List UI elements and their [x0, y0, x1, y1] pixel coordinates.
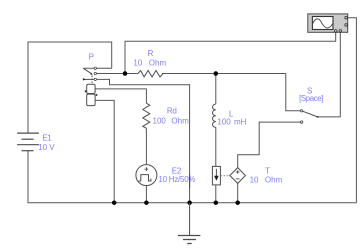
wire top-left loop: [28, 42, 112, 133]
junction node N2: [214, 71, 219, 76]
wire coil top to Rd: [95, 89, 146, 103]
lever P arrowhead: [90, 73, 92, 75]
wire P top contact to corner: [83, 67, 111, 69]
svg-text:R: R: [148, 49, 154, 58]
contact circle top: [94, 67, 96, 69]
junction rail 1: [112, 200, 117, 205]
svg-text:P: P: [89, 53, 94, 62]
resistor R: [138, 71, 163, 77]
wire R right lead: [162, 73, 286, 75]
row3 lever: [84, 78, 94, 80]
lever P: [83, 68, 91, 74]
junction rail 5: [235, 200, 240, 205]
svg-text:10 V: 10 V: [38, 143, 55, 152]
wire L top: [215, 74, 217, 105]
wire E2 to rail: [145, 186, 147, 203]
svg-text:mH: mH: [234, 118, 247, 127]
svg-text:Ohm: Ohm: [265, 175, 283, 184]
source E2: [136, 165, 157, 186]
svg-text:10: 10: [133, 58, 142, 67]
resistor Rd: [143, 103, 150, 128]
junction rail 2: [144, 200, 149, 205]
wire to switch S upper: [286, 74, 301, 111]
svg-text:E1: E1: [42, 134, 52, 143]
contact circle middle: [94, 72, 96, 74]
wire L to ammeter: [215, 127, 217, 166]
inductor L: [213, 104, 216, 127]
contact circle row3: [94, 78, 96, 80]
wire S lever to scope: [318, 31, 341, 117]
wire bottom rail: [28, 202, 357, 204]
svg-text:Rd: Rd: [167, 107, 177, 116]
coil arrow right: [95, 94, 97, 97]
svg-text:Ohm: Ohm: [149, 58, 167, 67]
oscilloscope: [308, 14, 348, 32]
relay P contacts: [83, 67, 97, 84]
battery E1: [17, 133, 39, 151]
wire main rail row: [97, 73, 138, 75]
svg-text:[Space]: [Space]: [299, 94, 323, 103]
controlled source T: [230, 168, 246, 184]
wire Rd to E2: [145, 128, 147, 164]
ammeter probe: [212, 166, 220, 185]
wire P row3 to ground node: [97, 79, 190, 202]
svg-text:10: 10: [250, 175, 259, 184]
junction rail 4: [214, 200, 219, 205]
wire scope ground to rail: [346, 18, 357, 203]
linkage dashed: [91, 75, 93, 84]
junction node N1: [123, 71, 128, 76]
junction rail 3: [187, 200, 192, 205]
wire T top to switch S lower: [238, 122, 301, 168]
svg-text:100: 100: [153, 117, 167, 126]
wire overlay ground branch: [189, 174, 191, 188]
dashed link probe to T: [220, 175, 229, 177]
coil arrow left: [85, 90, 87, 93]
ground: [178, 203, 200, 244]
switch S: [300, 110, 318, 124]
wire battery bottom to rail: [27, 151, 29, 203]
svg-text:Ohm: Ohm: [171, 117, 189, 126]
row3 arrowhead: [83, 78, 86, 81]
relay P coil: [87, 84, 95, 105]
wire ammeter to rail: [215, 185, 217, 203]
wire coil bottom return: [95, 100, 114, 202]
wire node N1 vertical: [125, 31, 336, 74]
svg-text:100: 100: [217, 118, 231, 127]
wire T bottom to rail: [237, 183, 239, 202]
svg-text:E2: E2: [172, 166, 182, 175]
